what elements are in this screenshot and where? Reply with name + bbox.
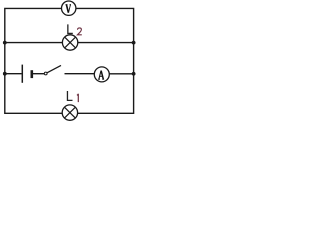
wire ammeter to right rail bbox=[109, 73, 133, 75]
lamp L2 bbox=[62, 35, 77, 50]
switch bbox=[44, 65, 61, 75]
voltmeter V bbox=[61, 1, 75, 15]
wire switch to ammeter bbox=[65, 73, 95, 75]
label L1 bbox=[67, 91, 79, 102]
node left battery bbox=[3, 72, 7, 76]
node right L2 bbox=[132, 41, 136, 45]
label L2 bbox=[67, 24, 82, 34]
node right ammeter bbox=[132, 72, 136, 76]
wire battery left segment bbox=[5, 73, 22, 75]
lamp L1 bbox=[62, 105, 77, 120]
wire battery to switch bbox=[32, 73, 44, 75]
node left L2 bbox=[3, 41, 7, 45]
wire outer loop bbox=[5, 8, 134, 113]
ammeter A bbox=[94, 67, 109, 82]
wire L2 branch bbox=[5, 42, 134, 44]
battery cell bbox=[22, 65, 32, 83]
